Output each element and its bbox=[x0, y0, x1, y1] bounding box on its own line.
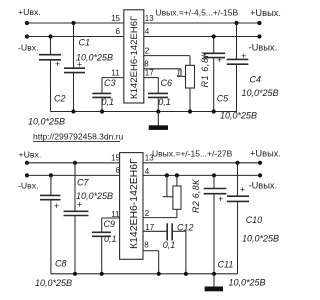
node C4 top junction bbox=[234, 21, 238, 25]
capacitor C5 bbox=[203, 37, 225, 112]
wire +Uin rail to pin 15 (bottom) bbox=[27, 162, 120, 164]
resistor R1 bbox=[144, 56, 195, 112]
capacitor C1 bbox=[64, 23, 85, 112]
svg-text:10,0*25В: 10,0*25В bbox=[76, 191, 113, 201]
pin 13 label bbox=[145, 14, 154, 23]
node +Uin (top) bbox=[25, 21, 29, 25]
pin 11 label (bottom IC) bbox=[111, 210, 120, 219]
svg-text:10,0*25В: 10,0*25В bbox=[28, 116, 65, 126]
node B junction C2/-rail bbox=[48, 34, 52, 38]
node R2 tap junction bbox=[165, 173, 169, 177]
node -Uin (top) bbox=[25, 34, 29, 38]
node C7 top junction bbox=[73, 161, 77, 165]
node -Uin (bottom) bbox=[25, 173, 29, 177]
node C11 bottom junction bbox=[212, 272, 216, 276]
node C5 bottom junction bbox=[212, 109, 216, 113]
svg-text:C7: C7 bbox=[77, 177, 89, 187]
svg-text:R1 6,8К: R1 6,8К bbox=[200, 51, 210, 87]
svg-text:-Uвх.: -Uвх. bbox=[18, 42, 39, 52]
svg-text:0,1: 0,1 bbox=[163, 240, 176, 250]
wire +Uin rail to pin 15 bbox=[27, 22, 124, 24]
node -Uout terminal (top) bbox=[257, 34, 261, 38]
svg-text:C8: C8 bbox=[55, 259, 67, 269]
node C12 bottom junction bbox=[184, 272, 188, 276]
resistor R2 bbox=[143, 175, 181, 217]
ground (bottom circuit) bbox=[205, 274, 223, 292]
svg-text:-Uвх.: -Uвх. bbox=[18, 181, 39, 191]
capacitor C3 with pin 11 wire bbox=[92, 78, 124, 112]
node R2 top junction bbox=[175, 173, 179, 177]
node +Uin (bottom) bbox=[25, 161, 29, 165]
wire common bottom rail (top circuit) bbox=[51, 111, 238, 113]
svg-text:0,1: 0,1 bbox=[158, 97, 171, 107]
svg-text:0,1: 0,1 bbox=[104, 234, 117, 244]
pin 6 label bbox=[116, 27, 121, 36]
svg-text:11: 11 bbox=[111, 69, 120, 78]
pin 15 label (bottom IC) bbox=[111, 153, 120, 162]
pin 11 label bbox=[111, 69, 120, 78]
wire pin 4 to -Uout (bottom) bbox=[143, 174, 260, 176]
svg-text:6: 6 bbox=[116, 166, 121, 175]
svg-text:10,0*25В: 10,0*25В bbox=[242, 88, 279, 98]
svg-text:1: 1 bbox=[176, 69, 180, 78]
pin 17 label bbox=[145, 69, 154, 78]
pin 6 label (bottom IC) bbox=[116, 166, 121, 175]
svg-text:http://299792458.3dn.ru: http://299792458.3dn.ru bbox=[33, 132, 124, 142]
wire -Uin rail to pin 6 (bottom) bbox=[27, 174, 120, 176]
svg-text:C10: C10 bbox=[246, 215, 263, 225]
wire pin 8 tap of R1 with marker 1 bbox=[144, 69, 186, 77]
node C6 bottom junction bbox=[156, 109, 160, 113]
svg-text:R2 6,8К: R2 6,8К bbox=[191, 179, 201, 213]
node pin8 wire junction bbox=[157, 272, 161, 276]
svg-text:+Uвых.: +Uвых. bbox=[250, 149, 281, 159]
node +Uout terminal (bottom) bbox=[258, 161, 262, 165]
svg-text:Uвых.=+/-15...+/-27В: Uвых.=+/-15...+/-27В bbox=[152, 149, 233, 159]
node C8 top junction bbox=[49, 173, 53, 177]
svg-text:15: 15 bbox=[111, 14, 120, 23]
wire pin 4 to -Uout bbox=[144, 36, 260, 38]
wire common bottom rail (bottom circuit) bbox=[51, 273, 238, 275]
wire tap of R2 bbox=[163, 175, 173, 196]
svg-text:+Uвх.: +Uвх. bbox=[19, 150, 42, 160]
svg-text:13: 13 bbox=[145, 14, 154, 23]
svg-text:К142ЕН6-142ЕН6Г: К142ЕН6-142ЕН6Г bbox=[129, 158, 140, 249]
capacitor C4 bbox=[227, 23, 249, 112]
wire -Uin rail to pin 6 bbox=[27, 36, 124, 38]
svg-text:17: 17 bbox=[145, 223, 154, 232]
svg-text:0,1: 0,1 bbox=[102, 97, 115, 107]
pin 4 label (bottom IC) bbox=[145, 167, 150, 176]
svg-text:10,0*25В: 10,0*25В bbox=[220, 110, 257, 120]
pin 8 label bbox=[144, 60, 149, 69]
svg-text:2: 2 bbox=[145, 47, 150, 56]
svg-text:К142ЕН6-142ЕН6Г: К142ЕН6-142ЕН6Г bbox=[129, 15, 140, 99]
svg-text:15: 15 bbox=[111, 153, 120, 162]
capacitor C2 bbox=[39, 37, 61, 112]
pin 13 label (bottom IC) bbox=[145, 153, 154, 162]
svg-text:10,0*25В: 10,0*25В bbox=[242, 233, 279, 243]
svg-text:17: 17 bbox=[145, 69, 154, 78]
capacitor C10 bbox=[227, 163, 249, 274]
svg-text:C5: C5 bbox=[217, 93, 229, 103]
pin 15 label bbox=[111, 14, 120, 23]
svg-text:8: 8 bbox=[144, 60, 149, 69]
node C5 top junction bbox=[212, 34, 216, 38]
capacitor C8 bbox=[40, 175, 61, 273]
svg-text:+Uвых.: +Uвых. bbox=[250, 8, 281, 18]
svg-text:Uвых.=+/-4,5...+/-15В: Uвых.=+/-4,5...+/-15В bbox=[156, 8, 239, 18]
svg-text:C6: C6 bbox=[161, 78, 173, 88]
svg-text:8: 8 bbox=[144, 241, 149, 250]
node C10 top junction bbox=[235, 161, 239, 165]
op-amp U2 regulator K142EN6 (bottom IC) bbox=[120, 153, 143, 260]
svg-text:-Uвых.: -Uвых. bbox=[249, 181, 278, 191]
node C3 bottom junction bbox=[100, 109, 104, 113]
node C11 top junction bbox=[212, 173, 216, 177]
ground (top circuit) bbox=[149, 112, 168, 130]
wire pin 8 to common rail (bottom) bbox=[143, 251, 159, 274]
svg-text:+Uвх.: +Uвх. bbox=[18, 7, 41, 17]
svg-text:C12: C12 bbox=[177, 223, 194, 233]
node R1 bottom junction bbox=[188, 109, 192, 113]
pin 2 label (bottom IC) bbox=[145, 209, 150, 218]
node +Uout terminal (top) bbox=[257, 21, 261, 25]
svg-text:+: + bbox=[240, 185, 245, 195]
node A junction C1/top rail bbox=[71, 21, 75, 25]
capacitor C7 bbox=[64, 163, 89, 274]
svg-text:C9: C9 bbox=[104, 219, 116, 229]
capacitor C11 bbox=[204, 175, 227, 273]
svg-text:C2: C2 bbox=[54, 94, 66, 104]
pin 17 label (bottom IC) bbox=[145, 223, 154, 232]
node C1 bottom junction bbox=[71, 109, 75, 113]
svg-text:+: + bbox=[218, 194, 223, 204]
svg-text:C1: C1 bbox=[79, 37, 91, 47]
svg-text:-Uвых.: -Uвых. bbox=[249, 43, 278, 53]
svg-text:2: 2 bbox=[145, 209, 150, 218]
capacitor C12 with pin 17 wire bbox=[143, 223, 186, 273]
pin 4 label bbox=[145, 27, 150, 36]
svg-text:4: 4 bbox=[145, 167, 150, 176]
capacitor C9 with pin 11 wire bbox=[92, 218, 120, 274]
wire pin 13 to +Uout (bottom) bbox=[143, 162, 260, 164]
svg-text:C11: C11 bbox=[218, 259, 234, 269]
node C7 bottom junction bbox=[73, 272, 77, 276]
svg-text:C4: C4 bbox=[250, 75, 262, 85]
svg-text:+: + bbox=[217, 55, 222, 65]
svg-text:10,0*25В: 10,0*25В bbox=[229, 278, 266, 288]
svg-text:4: 4 bbox=[145, 27, 150, 36]
op-amp U1 regulator K142EN6 (top IC) bbox=[124, 10, 144, 103]
svg-text:10,0*25В: 10,0*25В bbox=[76, 52, 113, 62]
wire pin 13 to +Uout bbox=[144, 22, 260, 24]
pin 8 label (bottom IC) bbox=[144, 241, 149, 250]
svg-text:+: + bbox=[55, 59, 60, 69]
node -Uout terminal (bottom) bbox=[258, 173, 262, 177]
svg-text:C3: C3 bbox=[104, 78, 116, 88]
svg-text:+: + bbox=[241, 51, 246, 61]
pin 2 label bbox=[145, 47, 150, 56]
svg-text:+: + bbox=[54, 201, 59, 211]
svg-text:6: 6 bbox=[116, 27, 121, 36]
node C9 bottom junction bbox=[100, 272, 104, 276]
svg-text:10,0*25В: 10,0*25В bbox=[35, 278, 72, 288]
capacitor C6 with pin 17 wire bbox=[144, 78, 168, 112]
